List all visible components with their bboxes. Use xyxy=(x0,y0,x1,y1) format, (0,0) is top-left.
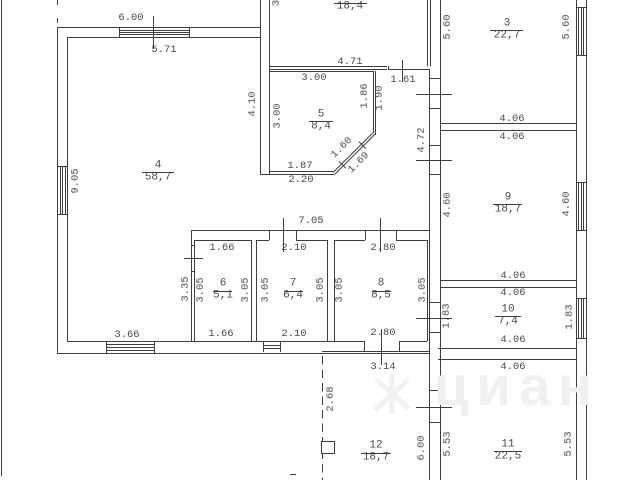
exterior wall: top inner face xyxy=(67,37,260,38)
wall room10|room11: room11 side xyxy=(438,359,576,360)
dimension 2.20 xyxy=(288,175,313,186)
dashed boundary line of room 12 (2.68) xyxy=(322,356,323,480)
window in bottom wall (room 7) xyxy=(263,341,264,352)
dashed extension above left wall xyxy=(57,0,58,5)
dimension 1.87 xyxy=(287,161,312,172)
dimension 3.00 room5 top xyxy=(301,73,326,84)
wall room4|room6: left face xyxy=(191,230,192,342)
dimension 3.05 room6 left xyxy=(195,277,206,302)
dimension 4.06 room9 top xyxy=(499,132,524,143)
door corridor-room3 xyxy=(429,78,441,79)
dimension 4.06 room11 top xyxy=(500,361,525,372)
dimension tick 6.00/5.71 xyxy=(153,16,154,49)
room 5 right wall inner xyxy=(373,71,374,133)
door room4-room8 leaf line xyxy=(380,218,381,252)
dimension 3.66 xyxy=(114,330,139,341)
door room12-room11 xyxy=(429,390,441,391)
dimension 6.00 top xyxy=(119,13,144,24)
dimension 1.90 xyxy=(375,85,386,110)
window in right wall (room 3) xyxy=(576,7,586,8)
door room4-room6 caps xyxy=(191,245,195,246)
dimension 1.61 xyxy=(390,75,415,86)
dimension 4.71 xyxy=(337,57,362,68)
dimension 2.80 room8 bottom xyxy=(370,328,395,339)
partition top-room bottom: lower line xyxy=(269,69,387,70)
door room4-room6 leaf line xyxy=(184,258,203,259)
door room8-room12 jambs xyxy=(364,341,365,351)
wall room3|room9: room3 side xyxy=(440,123,577,124)
wall top-room|room3: right face xyxy=(430,0,431,66)
room 6 right edge xyxy=(251,240,252,342)
dimension 4.06 room10 top xyxy=(500,288,525,299)
room 8 label 8,5 xyxy=(378,279,385,290)
dimension 1.60 chamfer inner xyxy=(329,135,354,160)
dimension 4.60 room9 left xyxy=(442,192,453,217)
dimension 5.53 room11 left xyxy=(443,431,454,456)
door room8-room12 leaf line xyxy=(381,329,382,365)
room 11 label 22,5 xyxy=(501,440,514,451)
dimension 1.66 room6 bottom xyxy=(208,328,233,339)
room 8 top edge with door gap xyxy=(334,240,365,241)
dimension 5.60 room3 right xyxy=(561,14,572,39)
central dividing wall: rooms 3/9/10/11 face xyxy=(440,0,441,480)
window in right wall (room 10) xyxy=(576,298,586,299)
dimension 4.06 room9 bottom xyxy=(500,271,525,282)
room 3 label 22,7 xyxy=(503,19,510,30)
corridor top dimension line xyxy=(388,69,429,70)
room 9 label 18,7 xyxy=(504,192,511,203)
dimension 6.00 room12 right xyxy=(416,435,427,460)
room 12 top edge xyxy=(322,351,429,352)
door corridor-room9 xyxy=(429,145,441,146)
central dividing wall: corridor-side face xyxy=(429,69,430,480)
wall room4|room5: left face xyxy=(260,0,261,174)
door room4-room8 jambs xyxy=(365,230,366,240)
exterior wall: bottom outer face xyxy=(57,353,429,354)
room 18,4 top (cropped) label xyxy=(334,3,367,4)
room 12 label 18,7 xyxy=(369,441,382,452)
dimension 4.60 room9 right xyxy=(561,191,572,216)
exterior wall: right outer face xyxy=(586,0,587,480)
dimension 5.60 room3 left xyxy=(443,14,454,39)
window in bottom wall (room 4, 3.66 side) xyxy=(106,341,107,352)
exterior wall: right inner face xyxy=(576,0,577,480)
pillar square on dashed boundary xyxy=(321,441,335,454)
dimension 3.35 xyxy=(180,276,191,301)
room 5 bottom wall inner xyxy=(269,171,333,172)
rooms 6/7/8 block top wall line xyxy=(191,230,429,231)
dimension 4.72 corridor xyxy=(416,127,427,152)
wall room4|room5: right face xyxy=(269,0,270,174)
dimension 2.80 room8 top xyxy=(370,242,395,253)
wall room10|room11: room10 side xyxy=(438,348,576,349)
exterior wall: top outer face xyxy=(57,27,261,28)
dimension 5.53 room11 right xyxy=(563,431,574,456)
dimension 2.68 dashed boundary xyxy=(325,386,336,411)
dimension 3.05 room7 right xyxy=(316,277,327,302)
exterior wall: left inner face xyxy=(67,37,68,342)
partition end connector xyxy=(388,66,389,69)
window in right wall (room 9) xyxy=(576,182,586,183)
window in left wall (room 4) xyxy=(57,166,68,167)
dimension 9.05 left wall xyxy=(70,168,81,193)
dimension 3.05 room6 right xyxy=(240,277,251,302)
dimension 1.86 xyxy=(359,83,370,108)
dimension 2.10 room7 bottom xyxy=(281,328,306,339)
door room8-room10 xyxy=(429,302,441,303)
room 6 label 5,1 xyxy=(219,279,226,290)
dimension 3.00 room5 left xyxy=(272,103,283,128)
wall room9|room10: room9 side xyxy=(440,280,577,281)
dimension 4.06 room3 bottom xyxy=(499,113,524,124)
room 5 label 8,4 xyxy=(317,110,324,121)
dimension 4.10 xyxy=(247,91,258,116)
room 7 left edge xyxy=(256,240,257,342)
neighbouring plan edge line (far left) xyxy=(1,0,2,476)
room 8 left edge xyxy=(334,240,335,342)
wall top-room|room3: left face xyxy=(427,0,428,66)
wall room3|room9: room9 side xyxy=(440,130,577,131)
dimension 3 top cropped xyxy=(272,0,283,6)
dimension 3.05 room8 right xyxy=(418,277,429,302)
wall room4|room6: right face xyxy=(194,240,195,342)
dimension 3.14 xyxy=(370,361,395,372)
dimension tick 1.61 xyxy=(402,60,403,82)
dimension 1.69 chamfer outer xyxy=(346,150,371,175)
door room4-room7 leaf line xyxy=(283,218,284,252)
dimension 3.05 room7 left xyxy=(260,277,271,302)
room 5 right wall outer xyxy=(375,71,376,135)
room 7 label 6,4 xyxy=(290,279,297,290)
dimension 4.06 room10 bottom xyxy=(500,335,525,346)
dimension 3.05 room8 left xyxy=(334,277,345,302)
room 4 label 58,7 xyxy=(154,160,161,171)
room 8 right edge xyxy=(427,240,428,342)
wall room9|room10: room10 side xyxy=(440,287,577,288)
door room4-room7 jambs xyxy=(269,230,270,240)
dimension 1.83 room10 left xyxy=(442,303,453,328)
room 7 top edge with door gap xyxy=(256,240,268,241)
room 10 label 7,4 xyxy=(501,304,514,315)
dimension 2.10 room7 top xyxy=(281,242,306,253)
exterior wall: left outer face xyxy=(57,27,58,354)
room 5 top edge xyxy=(269,71,373,72)
dimension 1.83 room10 right xyxy=(564,304,575,329)
watermark text cian xyxy=(434,358,640,414)
exterior wall: bottom inner face / room bottoms xyxy=(67,341,364,342)
room 6 top edge xyxy=(194,240,250,241)
dimension 1.66 room6 top xyxy=(209,242,234,253)
cropped mark bottom-left of room 12 xyxy=(290,474,296,475)
partition top-room bottom: upper line xyxy=(269,66,387,67)
room 5 bottom wall outer xyxy=(260,174,335,175)
dimension 5.71 top xyxy=(151,45,176,56)
room 7 right edge xyxy=(327,240,328,342)
window in top wall (room 4) xyxy=(119,27,120,37)
dimension 7.05 xyxy=(298,215,323,226)
